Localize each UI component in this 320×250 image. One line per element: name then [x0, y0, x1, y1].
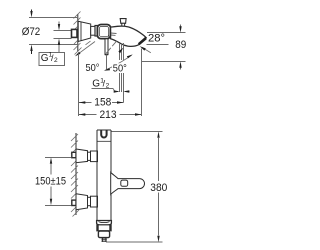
supply nipple through wall: [72, 29, 78, 37]
stem below body (spout pivot): [105, 39, 108, 55]
svg-text:158: 158: [94, 96, 111, 108]
wall (top view): [74, 12, 82, 55]
upper supply pipe: [72, 152, 76, 157]
lower supply pipe: [72, 200, 76, 205]
spout outline: [111, 26, 147, 46]
dimension Ø72 arrows: [30, 10, 32, 55]
shower hook (U bracket): [101, 130, 106, 137]
dimension Ø72 extension lines: [29, 18, 77, 45]
body end cap: [97, 221, 112, 226]
svg-text:50°: 50°: [86, 63, 100, 74]
diverter knob on spout: [120, 19, 126, 28]
centerline below stem: [106, 55, 108, 71]
G 1/2 nipple dimension (left, boxed): [54, 22, 72, 53]
svg-text:G: G: [41, 53, 49, 64]
right 50-degree arc with arrows: [106, 55, 132, 70]
svg-text:28°: 28°: [148, 32, 165, 44]
escutcheon (top view cone): [78, 21, 91, 41]
lower escutcheon: [76, 194, 88, 210]
lower union nut: [88, 197, 91, 205]
label G 1/2 (second, with leader and arrows): [92, 77, 130, 91]
shower outlet nut: [97, 225, 111, 231]
upper union nut: [88, 152, 91, 160]
right extension line for 213: [141, 49, 143, 117]
valve body (rounded square): [97, 25, 110, 39]
lever handle: [111, 172, 145, 194]
hose nut: [98, 231, 109, 238]
spout outlet face (dark band): [138, 37, 147, 46]
svg-text:380: 380: [150, 182, 167, 194]
left 50-degree ray: [77, 41, 95, 55]
dimension 158: [79, 102, 124, 104]
boxed label G 1/2: [39, 52, 65, 66]
neck cylinder: [91, 26, 95, 35]
extension lines from diverter knob: [120, 43, 124, 103]
svg-text:150±15: 150±15: [35, 176, 66, 188]
dimension 213: [79, 114, 142, 116]
lever button: [121, 180, 128, 186]
upper escutcheon: [76, 149, 88, 163]
dimension 89: [142, 25, 186, 70]
wall (front view): [71, 133, 79, 217]
svg-text:89: 89: [175, 39, 186, 51]
body flange ring: [95, 26, 97, 37]
dimension 150±15: [45, 157, 71, 205]
svg-text:213: 213: [100, 109, 117, 121]
left extension line (wall) for 158/213: [78, 54, 80, 117]
spout seam lines: [111, 32, 117, 34]
svg-text:50°: 50°: [113, 63, 127, 74]
hose nipple: [102, 238, 107, 242]
mixer body (front view): [97, 130, 111, 221]
svg-text:Ø72: Ø72: [22, 26, 41, 38]
right 50-degree ray (dashed): [106, 41, 117, 53]
svg-text:2: 2: [54, 57, 58, 64]
dimension 380: [106, 131, 163, 242]
